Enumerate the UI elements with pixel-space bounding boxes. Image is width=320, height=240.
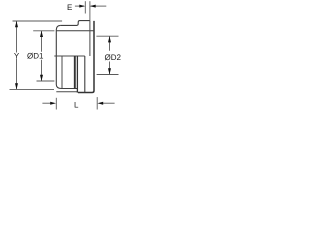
D1 top extension line <box>33 30 54 32</box>
D2 dimension up arrowhead <box>108 36 111 42</box>
E extension lines <box>84 1 86 13</box>
centerline <box>54 55 85 57</box>
Y dimension up arrowhead <box>15 21 18 27</box>
E dimension left tail line <box>75 5 84 7</box>
far bottom contour line <box>56 91 78 93</box>
E right-pointing arrowhead <box>79 5 85 8</box>
D1 dimension up arrowhead <box>40 31 43 37</box>
D2 dim line <box>109 36 111 51</box>
bore top line <box>56 30 94 32</box>
svg-text:Y: Y <box>14 51 20 60</box>
D1 dimension down arrowhead <box>40 75 43 81</box>
interior vertical thick line x=74.8 (lower half) <box>74 56 76 89</box>
bushing body top edge with step up to flange top <box>60 21 90 26</box>
E left-pointing arrowhead <box>90 5 96 8</box>
L right-pointing arrowhead <box>50 102 56 105</box>
E dimension right tail line <box>91 5 107 7</box>
svg-text:L: L <box>74 101 79 110</box>
D2 bottom extension line <box>97 74 119 76</box>
Y dimension down arrowhead <box>15 83 18 89</box>
D2 dimension down arrowhead <box>108 68 111 74</box>
Y top extension line <box>13 20 63 22</box>
svg-text:E: E <box>67 3 72 12</box>
L dimension tail lines <box>42 102 51 104</box>
interior vertical line x=89.9 (upper half, flange face) <box>89 21 91 56</box>
flange right edge <box>78 21 94 93</box>
L left-pointing arrowhead <box>97 102 103 105</box>
interior vertical line x=77.4 / flange step edge <box>76 56 78 93</box>
D1 dim line <box>41 31 43 52</box>
Y bottom extension line <box>10 88 55 90</box>
interior vertical line x=62 (lower half) <box>61 56 63 89</box>
D2 top extension line <box>96 35 118 37</box>
svg-text:ØD2: ØD2 <box>105 53 122 62</box>
interior vertical line x=84.8 (lower half) <box>84 56 86 92</box>
D1 bottom extension line <box>37 80 55 82</box>
bushing body left edge and bottom edge <box>56 25 77 88</box>
Y dim line (broken for label) <box>16 21 18 53</box>
L extension lines <box>55 98 57 110</box>
svg-text:ØD1: ØD1 <box>27 52 44 61</box>
